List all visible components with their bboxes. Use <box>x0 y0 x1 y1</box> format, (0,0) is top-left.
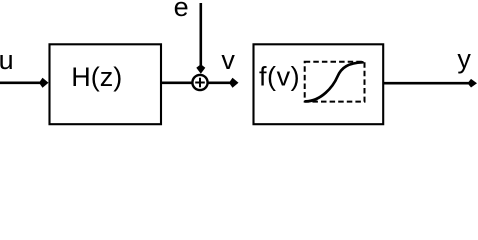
svg-text:u: u <box>0 45 14 75</box>
svg-text:v: v <box>221 45 235 75</box>
wire: v arrow from summing junction <box>207 78 239 88</box>
wire: input u arrow into H(z) <box>0 78 49 88</box>
block H(z) <box>50 44 162 124</box>
wire: e arrow down into summing junction <box>196 3 205 74</box>
block f(v) <box>254 44 384 124</box>
wire: H(z) output to summing junction <box>161 82 193 85</box>
svg-text:H(z): H(z) <box>71 62 122 92</box>
dashed inner box <box>305 62 365 102</box>
svg-text:f(v): f(v) <box>259 61 300 91</box>
svg-text:y: y <box>457 44 471 74</box>
summing junction circle with plus <box>192 75 207 90</box>
svg-text:e: e <box>174 0 189 22</box>
wire: output y arrow <box>383 79 477 88</box>
sigmoid curve <box>306 62 363 101</box>
